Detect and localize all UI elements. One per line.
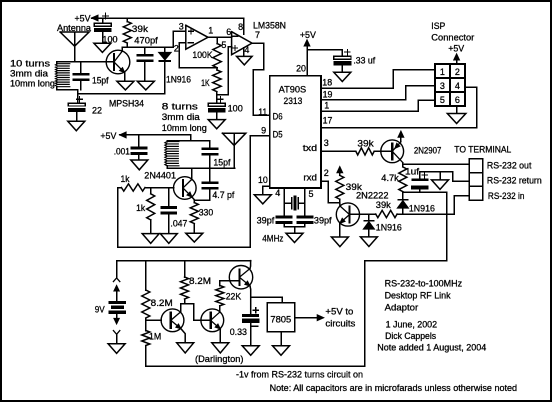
svg-text:1: 1	[208, 26, 213, 36]
svg-text:2: 2	[324, 168, 329, 178]
svg-text:1k: 1k	[136, 203, 145, 213]
svg-text:2N2907: 2N2907	[414, 146, 442, 156]
svg-text:5: 5	[221, 40, 226, 50]
svg-text:6: 6	[226, 27, 231, 37]
svg-text:39k: 39k	[376, 200, 392, 210]
svg-text:MPSH34: MPSH34	[109, 98, 144, 108]
svg-text:8 turns: 8 turns	[162, 101, 199, 111]
svg-text:9: 9	[261, 126, 266, 136]
svg-text:RS-232 return: RS-232 return	[487, 176, 542, 186]
svg-text:Note: All capacitors are in mi: Note: All capacitors are in microfarads …	[270, 383, 518, 393]
svg-text:Dick Cappels: Dick Cappels	[385, 331, 436, 341]
svg-text:rxd: rxd	[303, 173, 317, 183]
svg-text:+5V: +5V	[300, 30, 316, 40]
svg-text:D5: D5	[273, 130, 283, 140]
svg-text:Adaptor: Adaptor	[385, 303, 419, 313]
svg-text:4: 4	[275, 188, 280, 198]
svg-text:2: 2	[174, 43, 179, 53]
svg-text:Connector: Connector	[431, 32, 474, 42]
svg-text:100: 100	[228, 103, 243, 113]
svg-text:1k: 1k	[121, 174, 130, 184]
svg-text:22: 22	[92, 106, 102, 116]
svg-text:circuits: circuits	[325, 319, 356, 329]
svg-text:5: 5	[308, 189, 313, 199]
svg-text:15pf: 15pf	[213, 158, 230, 168]
svg-text:10mm long: 10mm long	[162, 123, 207, 133]
svg-text:11: 11	[258, 107, 267, 117]
svg-text:15pf: 15pf	[92, 76, 109, 86]
svg-text:3mm dia: 3mm dia	[10, 68, 48, 78]
svg-text:Note added 1 August, 2004: Note added 1 August, 2004	[377, 343, 486, 353]
svg-text:(Darlington): (Darlington)	[195, 354, 244, 364]
svg-text:22K: 22K	[226, 292, 242, 302]
svg-text:1N916: 1N916	[166, 74, 191, 84]
svg-text:+5V to: +5V to	[325, 307, 353, 317]
svg-text:-1v from RS-232 turns circuit: -1v from RS-232 turns circuit on	[236, 370, 363, 380]
svg-text:AT90S: AT90S	[279, 84, 307, 94]
svg-text:470pf: 470pf	[134, 35, 158, 45]
svg-text:4.7k: 4.7k	[381, 173, 399, 183]
svg-text:1N916: 1N916	[409, 204, 435, 214]
svg-text:9V: 9V	[95, 305, 105, 315]
svg-text:1N916: 1N916	[376, 223, 402, 233]
svg-text:ISP: ISP	[431, 21, 445, 31]
svg-text:10mm long: 10mm long	[10, 79, 55, 89]
svg-text:39k: 39k	[357, 138, 374, 148]
svg-text:3: 3	[179, 21, 184, 31]
svg-text:RS-232-to-100MHz: RS-232-to-100MHz	[385, 279, 463, 289]
svg-text:1: 1	[440, 67, 445, 77]
svg-text:2N2222: 2N2222	[356, 191, 389, 201]
svg-text:4MHz: 4MHz	[262, 234, 284, 244]
svg-text:7: 7	[255, 30, 260, 40]
svg-text:2: 2	[455, 67, 460, 77]
svg-text:3: 3	[324, 138, 329, 148]
svg-text:LM358N: LM358N	[253, 20, 286, 30]
svg-text:18: 18	[322, 77, 332, 87]
svg-text:2N4401: 2N4401	[144, 171, 176, 181]
svg-text:10 turns: 10 turns	[10, 58, 51, 68]
svg-text:.047: .047	[170, 219, 187, 229]
svg-text:5: 5	[440, 95, 445, 105]
svg-text:39pf: 39pf	[314, 216, 332, 226]
svg-text:+5V: +5V	[448, 43, 464, 53]
svg-text:0.33: 0.33	[230, 327, 247, 337]
svg-text:4: 4	[455, 81, 460, 91]
svg-text:1: 1	[324, 101, 329, 111]
svg-text:3mm dia: 3mm dia	[162, 112, 200, 122]
svg-text:19: 19	[323, 90, 333, 100]
svg-text:+5V: +5V	[100, 131, 116, 141]
svg-text:2313: 2313	[284, 96, 303, 106]
svg-text:39k: 39k	[132, 24, 149, 34]
svg-text:.001: .001	[114, 146, 130, 156]
svg-text:100K: 100K	[192, 50, 212, 60]
svg-text:txd: txd	[303, 143, 317, 153]
svg-text:8.2M: 8.2M	[151, 298, 173, 308]
svg-text:+5V: +5V	[75, 13, 91, 23]
svg-text:8.2M: 8.2M	[189, 276, 211, 286]
svg-text:4: 4	[244, 45, 249, 55]
svg-text:D6: D6	[273, 112, 283, 122]
svg-text:6: 6	[455, 95, 460, 105]
svg-text:RS-232 in: RS-232 in	[488, 191, 525, 201]
svg-text:1uf: 1uf	[405, 167, 420, 177]
svg-text:17: 17	[323, 116, 333, 126]
svg-text:330: 330	[199, 208, 214, 218]
svg-text:4.7 pf: 4.7 pf	[212, 190, 234, 200]
svg-text:7805: 7805	[270, 315, 291, 325]
svg-text:1M: 1M	[149, 332, 161, 342]
svg-text:.33 uf: .33 uf	[353, 56, 375, 66]
svg-text:39pf: 39pf	[257, 216, 275, 226]
svg-text:Desktop RF Link: Desktop RF Link	[385, 291, 451, 301]
svg-text:TO TERMINAL: TO TERMINAL	[454, 144, 511, 154]
svg-text:RS-232 out: RS-232 out	[487, 161, 532, 171]
svg-text:3: 3	[440, 81, 445, 91]
svg-text:20: 20	[296, 63, 306, 73]
svg-text:8: 8	[238, 22, 243, 32]
svg-text:1 June, 2002: 1 June, 2002	[386, 320, 438, 330]
svg-text:10: 10	[258, 175, 268, 185]
svg-text:1K: 1K	[201, 78, 210, 88]
